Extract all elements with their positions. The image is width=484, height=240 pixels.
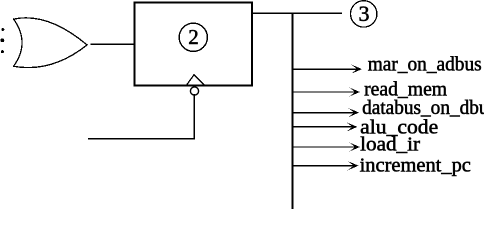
wire OR output to register [92,43,135,45]
svg-text:increment_pc: increment_pc [360,154,471,176]
svg-text:3: 3 [359,1,370,26]
control bus [292,13,294,208]
arrow alu_code [293,117,439,139]
arrow increment_pc [293,154,471,176]
arrow databus_on_dbus [293,97,484,119]
wire register output to node 3 [252,12,341,14]
OR gate input ellipsis dots [1,28,5,53]
arrow load_ir [293,134,421,156]
state label 2 [179,23,207,51]
clock bubble [190,87,198,95]
node 3 [351,1,377,27]
svg-text:load_ir: load_ir [360,134,420,156]
svg-text:mar_on_adbus: mar_on_adbus [368,54,482,76]
arrow mar_on_adbus [293,54,482,76]
arrow read_mem [293,79,448,101]
wire clock input [89,95,194,139]
clock edge triangle [186,75,204,86]
register box U2 [135,3,253,86]
svg-text:2: 2 [188,25,199,49]
or-gate U1 [14,18,87,68]
